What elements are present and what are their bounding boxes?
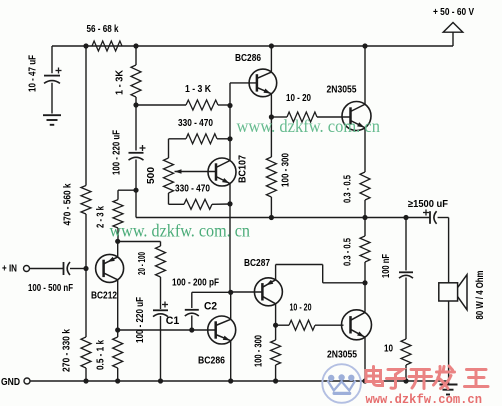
wire output rail to 0.3-0.5 lower [364,218,366,237]
wire BC286 lower emitter to ground rail [230,341,232,381]
label 330-470 middle [178,118,213,129]
wire BC287 collector down [275,303,277,325]
node junction rail x271 [269,43,274,48]
wire 1-3K to node B [135,97,137,105]
node junction x365 y282.8 [362,280,367,285]
svg-text:10 - 20: 10 - 20 [286,93,311,104]
wire BC287 emitter path [276,265,365,283]
wire VAS node to BC286 base [230,83,257,106]
terminal +IN [2,264,30,275]
capacitor 1500uF output [423,210,437,224]
resistor 56-68k [92,41,122,51]
wire 2N3055 collector to rail [364,46,366,104]
wire 100-300 lower to ground rail [275,365,277,381]
watermark green www.dzkfw.com.cn upper [237,116,381,136]
node junction rail x365 [362,43,367,48]
potentiometer 500 [164,158,216,193]
wire 2N3055 emitter to 0.3-0.5 [364,128,366,172]
wire 100nF to resistor 10 [405,278,407,340]
node input junction [83,266,88,271]
node BC287 collector junction [273,323,278,328]
node ground junctions [83,378,408,383]
wire input node down [85,269,87,338]
label BC286 lower [198,356,225,367]
node junction C1 ground [158,378,163,383]
svg-text:BC286: BC286 [198,356,225,367]
svg-text:BC287: BC287 [244,258,270,269]
label 100-200pF [172,278,219,289]
label 20-100 [137,252,148,275]
label 2N3055 upper [327,85,357,96]
wire 1-3K horizontal to VAS node [218,104,230,106]
wire BC286 collector to rail [270,46,272,72]
svg-text:500: 500 [146,167,157,184]
svg-text:1 - 3K: 1 - 3K [115,69,126,95]
wire 0.3-0.5 lower to node [364,262,366,283]
svg-text:80 W / 4 Ohm: 80 W / 4 Ohm [475,270,486,319]
node junction x230 y138.8 [227,136,232,141]
node feedback junction x136 y190 [133,188,138,193]
wire BC107 emitter down [229,183,231,292]
svg-text:10 - 47 uF: 10 - 47 uF [28,55,39,92]
label 10 [384,344,393,355]
watermark blue W logo [322,364,361,403]
resistor 10-20 lower [276,320,344,330]
label 100-300 lower [254,335,265,367]
wire supply riser to arrow [452,32,454,47]
node junction x230 y204 [227,201,232,206]
wire pot bottom to 330-470 [169,193,185,204]
node A junction top rail x86 [83,43,88,48]
speaker 80W 4Ohm [439,275,467,310]
label 0.3-0.5 lower [343,238,354,266]
capacitor C2 100-200pF [185,310,199,316]
transistor BC107 [208,158,236,186]
wire C2 top link [192,292,231,308]
wire node B to 1-3K horizontal [136,104,186,106]
transistor 2N3055 lower [342,310,372,340]
svg-text:330 - 470: 330 - 470 [178,118,213,129]
svg-text:100 nF: 100 nF [381,254,392,278]
node junction top rail x136 [133,43,138,48]
resistor 330-470 middle [169,134,231,144]
resistor 1-3K vertical [131,65,141,97]
svg-text:100 - 300: 100 - 300 [281,153,292,187]
power terminal +50-60V arrow [443,23,463,33]
node junction output rail x365 [362,215,367,220]
resistor 0.3-0.5 lower [360,236,370,262]
wire collector node to 0.5-1k [117,330,119,337]
svg-text:10 - 20: 10 - 20 [290,303,312,314]
label 1500uF [408,199,448,210]
svg-text:100 - 200 pF: 100 - 200 pF [172,278,219,289]
resistor 470-560k [81,186,91,215]
wire input terminal to cap [30,268,64,270]
resistor 100-300 lower [271,340,281,365]
watermark green www.dzkfw.com.cn lower [110,221,251,241]
resistor 330-470 lower [184,199,230,209]
node B junction [133,102,138,107]
wire BC286 emitter down [270,94,272,117]
capacitor C1 100-220uF [153,302,168,317]
resistor 0.5-1k [113,337,123,368]
node emitter junction x117.6 [115,239,120,244]
svg-text:BC286: BC286 [235,53,261,64]
wire speaker to ground [448,301,450,384]
svg-text:BC212: BC212 [91,291,117,302]
wire 100-300 to output rail [270,197,272,218]
label 500 [146,167,157,184]
label 330-470 lower [175,184,210,195]
svg-text:BC107: BC107 [238,155,249,183]
label 100-220uF feedback [112,130,123,175]
node junction x271 y117 [269,114,274,119]
watermark red www.dzkfw.com.cn [366,392,483,406]
wire x136 rail to 1-3K [135,46,137,65]
svg-text:10: 10 [384,344,393,355]
svg-text:+ 50 - 60 V: + 50 - 60 V [433,7,474,18]
wire pot top link [168,139,170,158]
wire base link y330 [118,329,216,331]
svg-text:www. dzkfw. com. cn: www. dzkfw. com. cn [110,221,251,241]
wire C2 bottom to y330 [191,316,193,331]
wire 1500uF to speaker [438,218,449,283]
label 1-3K horizontal [185,84,212,95]
wire 0.3-0.5 to output rail [364,200,366,218]
label C1 [166,315,180,327]
wire x406 to 100nF [405,218,407,271]
capacitor 10-47uF [44,46,62,114]
label 80W 4Ohm [475,270,486,319]
wire C1 to ground rail [160,316,162,381]
label 2-3k [95,206,106,228]
svg-text:100 - 220 uF: 100 - 220 uF [135,297,146,343]
svg-text:330 - 470: 330 - 470 [175,184,210,195]
wire emitter node to 20-100 [118,242,161,247]
svg-text:100 - 500 nF: 100 - 500 nF [28,283,73,294]
label BC286 upper [235,53,261,64]
label C2 [204,301,217,313]
wire output rail [136,217,430,219]
wire BC107 collector up [229,106,231,161]
label 2N3055 lower [327,350,357,361]
resistor 2-3k [113,200,123,228]
wire BC212 emitter up [117,241,119,257]
wire BC212 collector down [117,280,119,330]
label 100-220uF C1 [135,297,146,343]
svg-text:C1: C1 [166,315,180,327]
node BC212 collector junction [115,327,120,332]
wire input cap to input node [70,268,86,270]
label 56-68k [87,24,119,35]
svg-text:www.dzkfw.com.cn: www.dzkfw.com.cn [366,392,483,406]
svg-text:≥1500 uF: ≥1500 uF [408,199,448,210]
label 10-20 lower [290,303,312,314]
label 270-330k [62,329,73,372]
label 10-47uF [28,55,39,92]
wire BC287 base [230,291,262,293]
svg-text:270 - 330 k: 270 - 330 k [62,329,73,372]
wire 0.5-1k to ground rail [117,368,119,381]
ground symbol left [43,115,61,125]
label 10-20 upper [286,93,311,104]
svg-text:C2: C2 [204,301,217,313]
wire ground rail [30,380,449,382]
transistor BC287 [254,278,282,306]
resistor 0.3-0.5 upper [360,172,370,200]
resistor 10 [401,339,411,365]
watermark red chinese 电子开发王 [366,366,488,389]
svg-text:0.3 - 0.5: 0.3 - 0.5 [343,175,354,203]
node junction output rail x406 [403,215,408,220]
resistor 10-20 upper [271,112,350,122]
wire 2N3055 lower emitter to ground rail [364,338,366,381]
wire resistor 10 to ground rail [405,365,407,381]
transistor 2N3055 upper [342,102,371,131]
ground symbol right [440,385,458,395]
label 1-3K vertical [115,69,126,95]
svg-text:0.5 - 1 k: 0.5 - 1 k [96,340,107,370]
svg-text:470 - 560 k: 470 - 560 k [63,183,74,225]
svg-text:56 - 68 k: 56 - 68 k [87,24,119,35]
svg-text:+ IN: + IN [2,264,17,275]
transistor BC286 lower [208,316,236,344]
label 470-560k [63,183,74,225]
svg-text:www. dzkfw. com. cn: www. dzkfw. com. cn [237,116,381,136]
wire x271 to 100-300 [270,117,272,157]
svg-text:2 - 3 k: 2 - 3 k [95,206,106,228]
label 100-300 upper [281,153,292,187]
svg-text:100 - 300: 100 - 300 [254,335,265,367]
wire x136 down to output rail corner [135,190,137,217]
wire 2-3k to emitter node [117,228,119,241]
label BC287 [244,258,270,269]
wire 270-330k to ground rail [85,368,87,381]
svg-text:2N3055: 2N3055 [327,85,357,96]
svg-text:1 - 3 K: 1 - 3 K [185,84,212,95]
wire 470-560k to input node [85,214,87,269]
resistor 1-3K horizontal [186,100,218,110]
resistor 270-330k [81,337,91,368]
transistor BC286 upper [249,69,277,97]
svg-text:0.3 - 0.5: 0.3 - 0.5 [343,238,354,266]
label 0.5-1k [96,340,107,370]
resistor 100-300 upper [266,157,276,197]
wire 20-100 to C1 [160,277,162,309]
label 100nF [381,254,392,278]
label +50-60V [433,7,474,18]
capacitor 100nF [399,272,413,278]
svg-text:20 - 100: 20 - 100 [137,252,148,275]
label 0.3-0.5 upper [343,175,354,203]
node VAS junction x230 y105 [227,103,232,108]
label 100-500nF [28,283,73,294]
node C2 bottom junction [189,327,194,332]
svg-text:2N3055: 2N3055 [327,350,357,361]
svg-text:100 - 220 uF: 100 - 220 uF [112,130,123,175]
wire x86 rail to 470-560k [85,46,87,186]
capacitor 100-220uF feedback [129,105,146,190]
wire 2-3k top link [118,190,136,199]
wire 2N3055 lower collector up [364,283,366,312]
transistor BC212 [96,254,124,282]
label BC212 [91,291,117,302]
terminal GND [1,377,30,388]
node junction output rail x271 [269,215,274,220]
svg-text:GND: GND [1,377,20,388]
node junction x230.7 y292.3 [228,290,233,295]
wire BC286 lower collector up [230,292,232,319]
label BC107 [238,155,249,183]
resistor 20-100 [156,246,166,277]
wire x275 to 100-300 lower [275,325,277,340]
capacitor 100-500nF input [64,262,71,275]
wire top supply rail [52,45,453,47]
